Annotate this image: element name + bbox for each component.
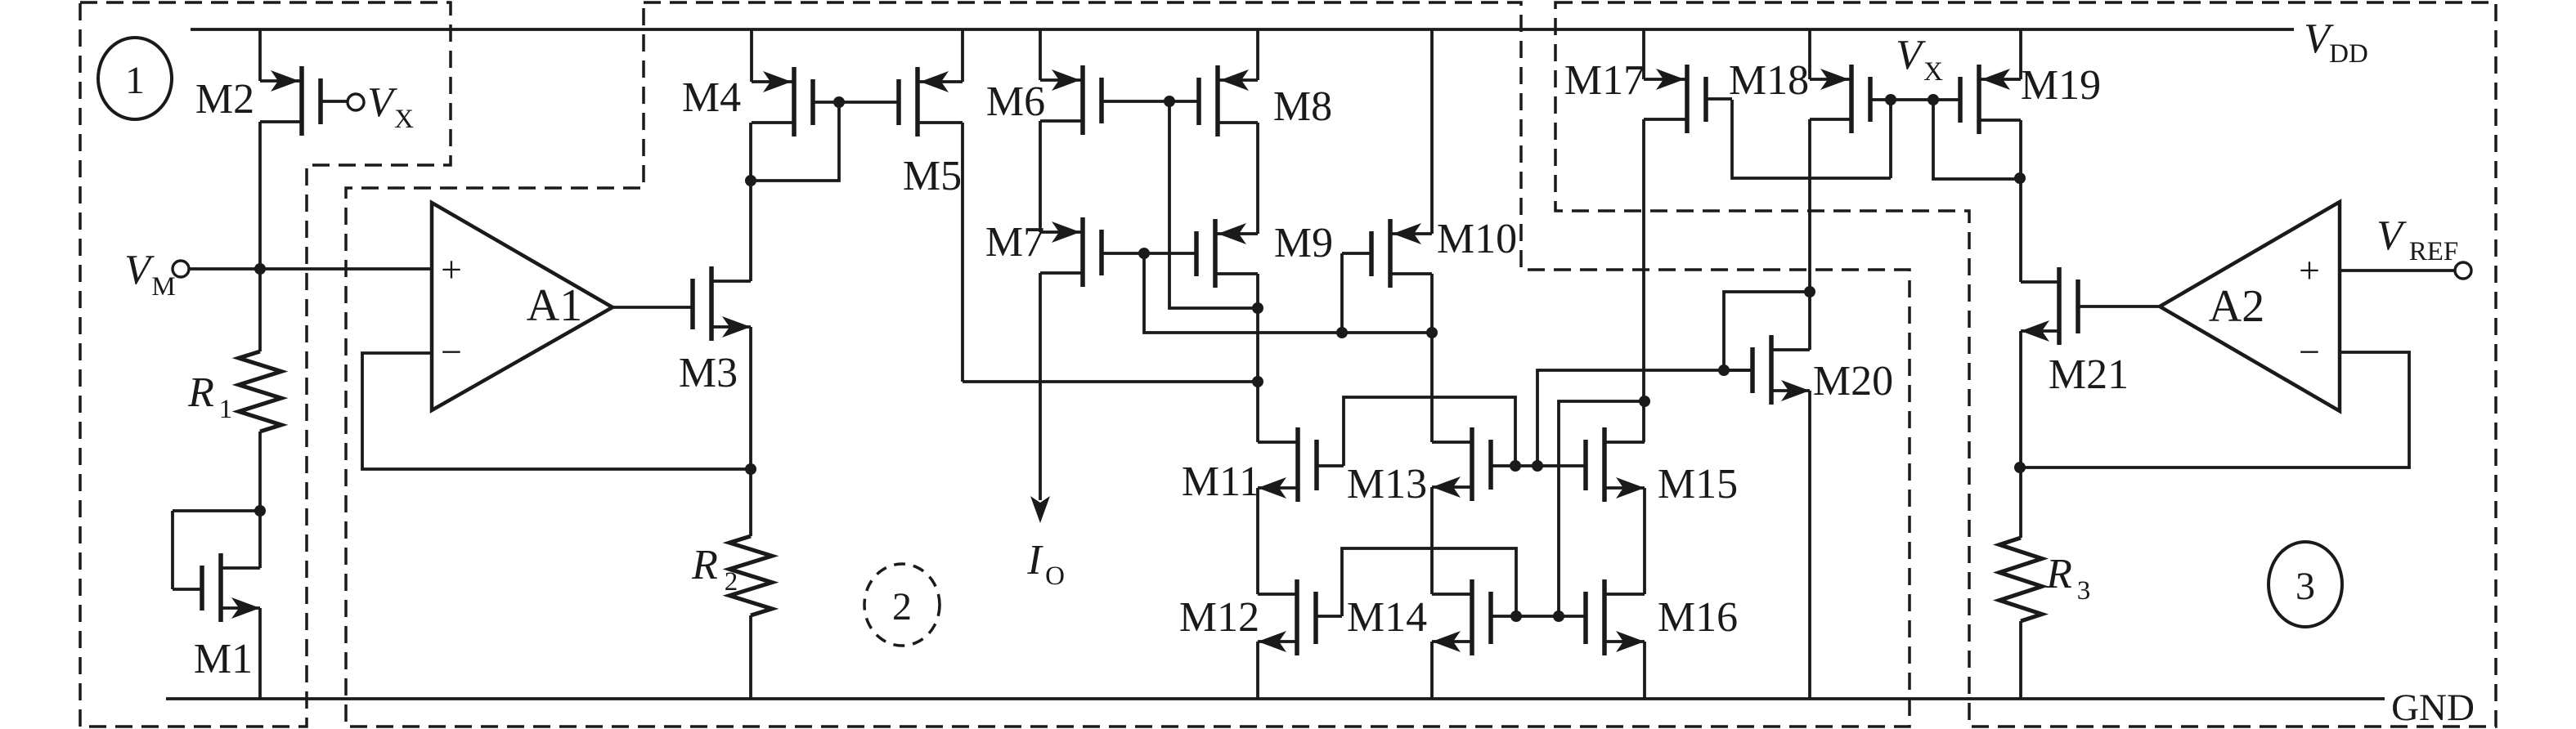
svg-text:M16: M16: [1658, 594, 1738, 641]
svg-text:I: I: [1026, 537, 1043, 584]
svg-text:M10: M10: [1437, 216, 1517, 262]
svg-text:M17: M17: [1564, 57, 1645, 104]
svg-text:R: R: [2045, 551, 2072, 597]
svg-text:V: V: [124, 247, 155, 293]
svg-text:M4: M4: [682, 74, 741, 121]
svg-text:M9: M9: [1274, 220, 1333, 266]
svg-text:1: 1: [125, 59, 145, 102]
svg-text:3: 3: [2077, 576, 2091, 606]
svg-text:M3: M3: [679, 350, 738, 396]
svg-text:R: R: [691, 542, 718, 588]
svg-text:−: −: [441, 331, 462, 373]
svg-text:+: +: [441, 248, 462, 290]
svg-text:M1: M1: [194, 636, 253, 682]
svg-text:M11: M11: [1182, 458, 1260, 505]
svg-text:REF: REF: [2409, 237, 2459, 266]
svg-text:M14: M14: [1347, 594, 1427, 641]
svg-text:V: V: [367, 79, 397, 126]
svg-text:M15: M15: [1658, 461, 1738, 508]
svg-text:DD: DD: [2329, 39, 2368, 69]
svg-text:V: V: [1896, 32, 1926, 78]
svg-text:M12: M12: [1179, 594, 1259, 641]
svg-text:M5: M5: [903, 153, 962, 199]
svg-text:O: O: [1045, 561, 1065, 591]
svg-text:M6: M6: [986, 78, 1045, 125]
svg-text:M19: M19: [2021, 62, 2101, 109]
svg-text:M13: M13: [1347, 461, 1427, 508]
svg-text:2: 2: [725, 567, 738, 597]
svg-text:+: +: [2299, 249, 2320, 291]
svg-text:M2: M2: [195, 76, 254, 123]
svg-text:3: 3: [2296, 565, 2315, 608]
svg-text:X: X: [1923, 57, 1943, 87]
svg-text:V: V: [2376, 212, 2407, 259]
svg-text:A1: A1: [527, 280, 582, 331]
svg-text:M: M: [151, 272, 175, 302]
svg-text:M8: M8: [1273, 83, 1332, 130]
svg-text:2: 2: [892, 585, 912, 628]
svg-text:GND: GND: [2391, 687, 2475, 729]
svg-text:−: −: [2299, 331, 2320, 373]
svg-text:M7: M7: [985, 219, 1044, 266]
svg-text:X: X: [394, 105, 414, 134]
svg-text:M18: M18: [1729, 57, 1809, 104]
svg-text:R: R: [187, 369, 214, 416]
svg-text:M20: M20: [1813, 358, 1893, 405]
svg-text:A2: A2: [2209, 281, 2264, 332]
svg-text:M21: M21: [2049, 351, 2129, 398]
svg-text:1: 1: [219, 395, 233, 424]
